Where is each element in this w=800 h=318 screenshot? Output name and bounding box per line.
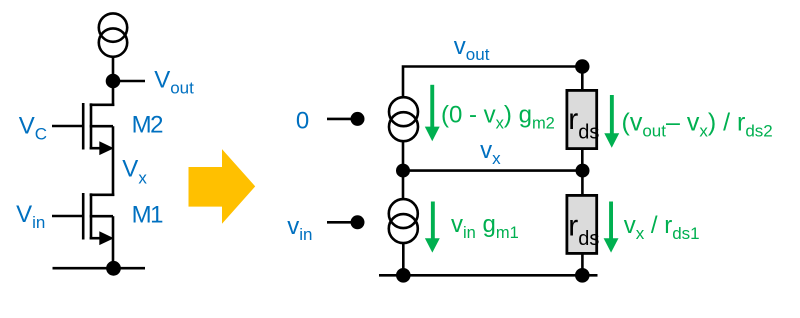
ground rail (right circuit) <box>379 274 598 277</box>
wire: Vout stub to the right <box>113 80 145 83</box>
svg-text:M2: M2 <box>132 112 163 139</box>
transistor M1 <box>52 193 114 240</box>
green current arrow (gm1) <box>425 202 440 253</box>
resistor rds1 <box>567 195 597 253</box>
wire: rds1 to ground rail <box>581 253 584 275</box>
svg-text:0: 0 <box>296 107 309 134</box>
wire: input stub vin <box>327 221 351 224</box>
current source gm2 <box>389 97 418 141</box>
current source gm1 <box>389 199 418 243</box>
node input vin dot <box>351 215 365 229</box>
current source I1 (left bias source) <box>99 13 127 56</box>
wire: M1 source down to ground <box>112 216 115 268</box>
node vx-left dot <box>396 164 410 178</box>
wire: vx rail down to rds1 <box>581 171 584 194</box>
wire: vout top rail <box>403 67 583 97</box>
wire: node Vx vertical (M2 source to M1 drain) <box>112 126 115 196</box>
transistor M2 <box>52 103 114 150</box>
ground rail (left circuit) <box>53 267 146 270</box>
yellow block arrow <box>189 149 256 224</box>
green current arrow (gm2) <box>425 85 440 142</box>
wire: rds2 to vx rail <box>581 149 584 171</box>
wire: gm1 bottom to ground rail <box>402 243 405 275</box>
node vx-right dot <box>576 164 590 178</box>
wire: gm2 source bottom to vx rail <box>402 142 405 171</box>
resistor rds2 <box>567 90 597 148</box>
ground node dot (gm1) <box>396 268 411 283</box>
wire: vx rail down to gm1 <box>402 171 405 199</box>
ground node dot (rds1) <box>575 268 590 283</box>
node vout-right dot <box>575 59 589 73</box>
arrow of M1 source <box>99 231 114 245</box>
ground node dot <box>106 261 121 276</box>
arrow of M2 source <box>99 141 114 155</box>
node input 0 dot <box>351 112 365 126</box>
node Vout (left) <box>106 74 121 89</box>
wire: vx middle rail <box>403 169 583 172</box>
wire: current source to Vout node <box>112 57 115 82</box>
wire: Vout node down to M2 drain <box>112 81 115 106</box>
wire: input stub 0 <box>327 118 353 121</box>
svg-text:M1: M1 <box>132 202 163 229</box>
green current arrow (rds1) <box>604 202 619 253</box>
wire: vout node down to rds2 <box>581 67 584 91</box>
green current arrow (rds2) <box>604 95 619 148</box>
